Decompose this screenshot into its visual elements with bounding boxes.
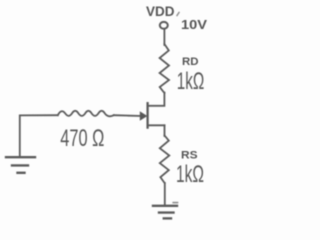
svg-text:1kΩ: 1kΩ <box>176 161 204 188</box>
svg-text:RD: RD <box>182 56 199 68</box>
svg-text:1kΩ: 1kΩ <box>177 68 205 95</box>
wire RD bottom to drain <box>148 93 164 106</box>
label RD <box>182 56 199 68</box>
svg-text:470 Ω: 470 Ω <box>60 125 104 152</box>
wire VDD terminal to RD top <box>163 29 165 45</box>
value label 1 kΩ (RD) <box>177 68 205 95</box>
resistor 470Ω <box>58 111 114 116</box>
label VDD <box>146 4 175 19</box>
value label 470 Ω <box>60 125 104 152</box>
transistor Q1 n-channel JFET <box>140 103 164 127</box>
resistor RD <box>160 44 169 93</box>
label RS <box>181 149 198 161</box>
ground (left) <box>6 157 35 173</box>
wire left: gate run to ground <box>20 115 58 156</box>
value label 1 kΩ (RS) <box>176 161 204 188</box>
svg-text:VDD: VDD <box>146 4 175 19</box>
ground (right) <box>153 203 178 219</box>
resistor RS <box>160 136 170 184</box>
wire source to RS top <box>164 125 166 136</box>
power terminal VDD <box>160 22 168 29</box>
wire RS bottom to ground <box>164 183 166 205</box>
label 10V <box>177 13 207 33</box>
svg-text:10V: 10V <box>181 17 207 32</box>
wire gate from 470 resistor to transistor <box>114 114 142 117</box>
svg-text:RS: RS <box>181 149 198 161</box>
